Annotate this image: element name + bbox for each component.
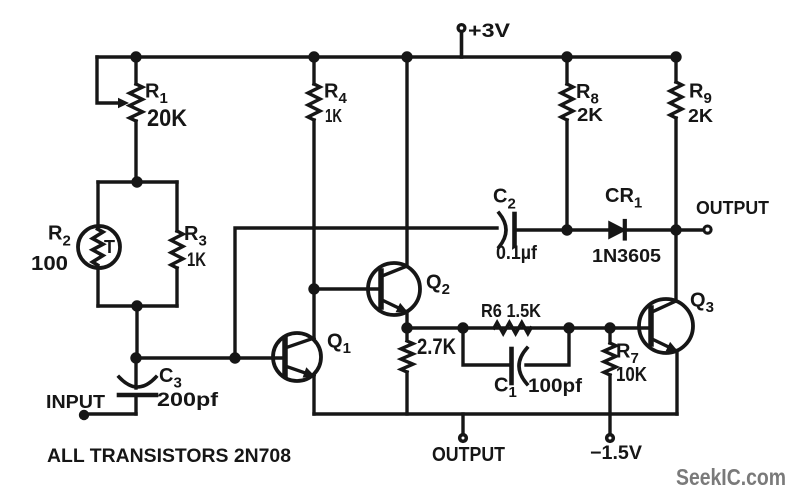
label 2.7K [417,334,456,359]
resistor R1 (potentiometer) [130,57,143,182]
svg-text:OUTPUT: OUTPUT [432,444,505,466]
svg-text:ALL TRANSISTORS 2N708: ALL TRANSISTORS 2N708 [47,446,291,467]
wire left branch to thermistor [96,182,99,227]
svg-text:10K: 10K [616,364,647,386]
label INPUT [46,392,105,412]
node R7 junction [604,322,615,333]
label R6 1.5K [481,301,541,321]
node R4 top [308,51,319,62]
wire parallel-pair top edge [98,180,177,183]
terminal OUTPUT (right) [704,226,711,233]
wire below thermistor [96,266,99,306]
svg-text:100pf: 100pf [528,376,583,397]
terminal -1.5V [607,435,614,442]
node R6/C1 right junction [563,322,574,333]
label C1 100pf [494,375,583,402]
node bottom of R2/R3 pair [131,300,142,311]
wire input node horizontal [136,356,285,359]
resistor R7 [604,328,616,433]
svg-text:T: T [104,237,115,257]
transistor Q2 [368,57,420,328]
label OUTPUT bottom [432,444,505,466]
resistor R8 [561,57,573,230]
svg-text:2K: 2K [577,105,603,125]
terminal OUTPUT (bottom) [460,435,467,442]
label +3V [468,21,510,42]
label R4 1K [324,81,347,127]
svg-text:OUTPUT: OUTPUT [696,198,769,218]
svg-text:200pf: 200pf [157,390,219,411]
label -1.5V [590,443,642,464]
thermistor R2 [78,226,120,268]
wire C2 node to diode [567,228,610,231]
svg-text:+3V: +3V [468,21,510,42]
resistor R6 [494,323,531,334]
label Q1 [327,331,351,358]
wire R9 node to Q3 collector [674,230,677,301]
wire to OUTPUT terminal [676,228,703,231]
label C3 200pf [157,365,219,411]
svg-text:Q3: Q3 [690,290,714,317]
wiper arm R1 [97,57,129,108]
node R9 top [670,51,681,62]
svg-text:1K: 1K [325,106,342,126]
svg-text:R4: R4 [324,81,347,108]
diode CR1 [610,221,677,239]
capacitor C1 [463,328,569,384]
svg-text:20K: 20K [147,105,188,132]
label R7 10K [616,341,647,387]
resistor R9 [670,57,682,230]
terminal INPUT [79,410,89,420]
svg-text:2.7K: 2.7K [417,334,456,359]
label ALL TRANSISTORS 2N708 [47,446,291,467]
wire top rail [97,55,675,58]
wire Q1 collector to Q2 base [314,287,381,290]
node Q2 emitter junction [401,322,412,333]
node output junction [670,224,681,235]
svg-text:CR1: CR1 [605,185,642,212]
watermark SeekIC.com [676,464,786,490]
svg-text:C3: C3 [159,365,182,392]
label Q2 [426,272,450,299]
svg-text:R8: R8 [576,81,599,108]
label R3 1K [184,223,207,271]
svg-text:INPUT: INPUT [46,392,105,412]
svg-text:R6 1.5K: R6 1.5K [481,301,541,321]
node R8 top [561,51,572,62]
label T inside thermistor [104,237,115,257]
label Q3 [690,290,714,317]
svg-text:Q1: Q1 [327,331,351,358]
transistor Q3 [639,299,693,414]
capacitor C2 [499,213,567,247]
node top of R2/R3 pair [131,176,142,187]
resistor 2.7K [401,328,413,414]
node input junction [130,352,141,363]
svg-text:Q2: Q2 [426,272,450,299]
svg-text:C2: C2 [493,186,516,213]
svg-text:−1.5V: −1.5V [590,443,642,464]
label R1 20K [145,81,188,133]
label R8 2K [576,81,603,125]
svg-text:0.1µf: 0.1µf [496,243,538,264]
label OUTPUT right [696,198,769,218]
wire C2 feedback branch [235,228,497,358]
node R6/C1 left junction [457,322,468,333]
svg-text:100: 100 [31,253,68,275]
svg-text:2K: 2K [688,106,713,126]
capacitor C3 [119,358,156,414]
node top of R1 [130,51,141,62]
wire bottom rail [314,412,677,415]
svg-text:R9: R9 [689,81,712,108]
wire Q2 emitter to Q3 base [407,326,651,329]
node R8 bottom / C2-CR1 junction [561,224,572,235]
label C2 0.1uf [493,186,538,265]
wire riser to input node [135,306,138,358]
node C2 branch junction [229,352,240,363]
label CR1 1N3605 [592,185,661,266]
resistor R3 [171,182,183,306]
node Q2 collector rail [401,51,412,62]
wire parallel-pair bottom edge [98,304,177,307]
svg-text:1N3605: 1N3605 [592,246,661,266]
transistor Q1 [273,289,321,414]
wire OUTPUT bottom stub [461,414,464,433]
wire to INPUT terminal [84,412,136,415]
node Q1 collector junction [308,283,319,294]
label R9 2K [688,81,713,127]
resistor R4 [308,57,320,289]
svg-text:R1: R1 [145,81,168,108]
label R2 100 [31,223,71,276]
svg-text:R3: R3 [184,223,207,250]
power +3V terminal [458,25,465,57]
svg-text:SeekIC.com: SeekIC.com [676,464,786,490]
svg-text:R2: R2 [48,223,71,250]
svg-text:1K: 1K [187,250,206,271]
